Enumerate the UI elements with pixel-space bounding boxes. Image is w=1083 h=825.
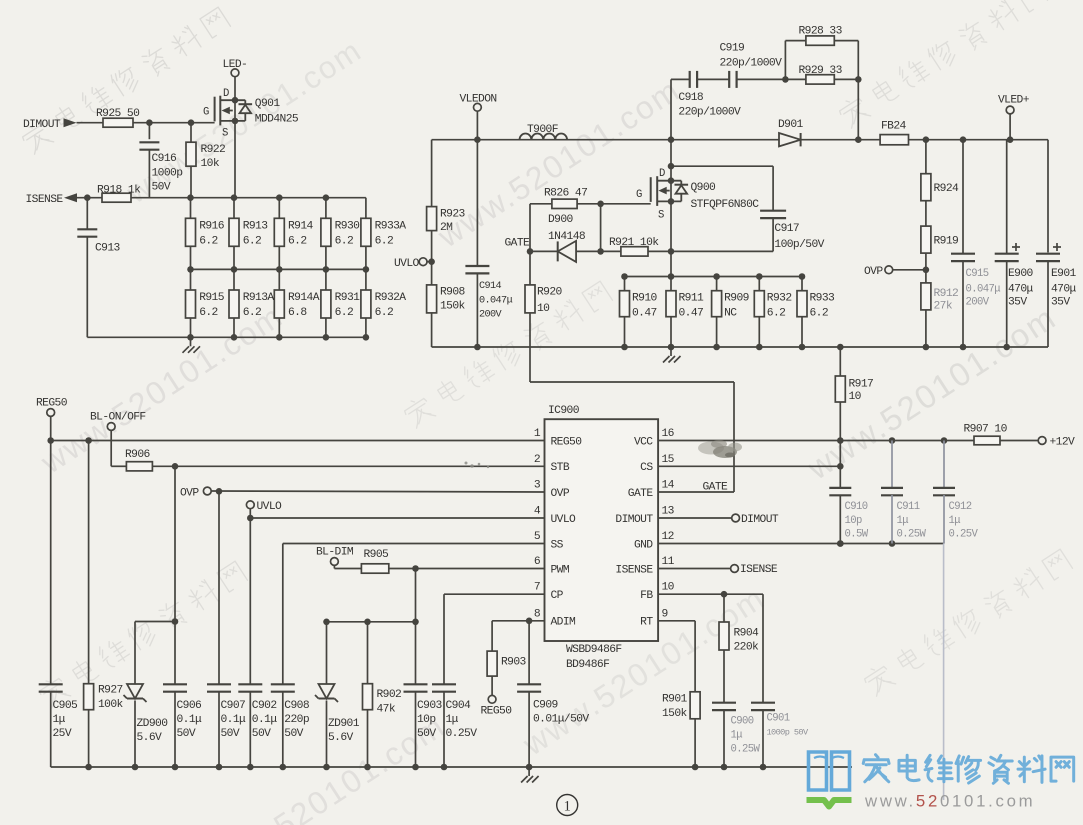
- svg-text:G: G: [636, 189, 642, 201]
- svg-text:0.5W: 0.5W: [845, 529, 869, 541]
- svg-text:FB: FB: [640, 590, 653, 602]
- svg-text:REG50: REG50: [481, 706, 513, 718]
- svg-text:5.6V: 5.6V: [328, 732, 354, 744]
- svg-text:Q900: Q900: [691, 182, 717, 194]
- svg-text:R909: R909: [724, 293, 749, 305]
- svg-text:50V: 50V: [417, 728, 436, 740]
- svg-text:1μ: 1μ: [897, 515, 909, 527]
- svg-text:C912: C912: [949, 501, 972, 513]
- svg-text:C907: C907: [221, 700, 246, 712]
- svg-text:0.47: 0.47: [632, 308, 657, 320]
- svg-text:C906: C906: [177, 700, 203, 712]
- svg-text:R914A: R914A: [288, 292, 320, 304]
- svg-text:C913: C913: [95, 243, 121, 255]
- svg-text:R915: R915: [199, 292, 225, 304]
- svg-text:1μ: 1μ: [731, 730, 743, 742]
- svg-text:R932A: R932A: [375, 292, 407, 304]
- svg-text:S: S: [222, 128, 228, 140]
- svg-text:10p: 10p: [417, 714, 436, 726]
- svg-text:R914: R914: [288, 221, 314, 233]
- svg-text:10: 10: [537, 303, 550, 315]
- svg-text:0.047μ: 0.047μ: [479, 296, 513, 307]
- svg-text:50V: 50V: [221, 728, 240, 740]
- svg-text:D: D: [659, 168, 665, 180]
- svg-text:0.047μ: 0.047μ: [966, 284, 1001, 296]
- svg-text:OVP: OVP: [864, 266, 883, 278]
- svg-text:CS: CS: [640, 462, 653, 474]
- svg-text:C919: C919: [720, 43, 745, 55]
- svg-text:11: 11: [662, 556, 675, 568]
- svg-text:R918 1k: R918 1k: [97, 185, 141, 197]
- svg-text:CP: CP: [551, 590, 564, 602]
- svg-text:0.25V: 0.25V: [446, 728, 478, 740]
- svg-text:6.2: 6.2: [375, 236, 394, 248]
- svg-text:R924: R924: [934, 183, 960, 195]
- svg-text:0.25V: 0.25V: [949, 529, 979, 541]
- svg-text:BL-ON/OFF: BL-ON/OFF: [90, 412, 146, 424]
- svg-text:5.6V: 5.6V: [137, 732, 163, 744]
- svg-text:100p/50V: 100p/50V: [774, 239, 824, 251]
- svg-text:1000p 50V: 1000p 50V: [767, 728, 809, 738]
- svg-text:2: 2: [534, 454, 540, 466]
- svg-text:5: 5: [534, 531, 541, 543]
- svg-text:R925 50: R925 50: [96, 108, 140, 120]
- svg-text:GATE: GATE: [628, 488, 654, 500]
- svg-text:D901: D901: [778, 119, 804, 131]
- svg-text:16: 16: [662, 428, 675, 440]
- svg-text:6.2: 6.2: [810, 308, 829, 320]
- svg-text:3: 3: [534, 480, 541, 492]
- svg-text:C909: C909: [533, 700, 558, 712]
- svg-text:UVLO: UVLO: [551, 514, 577, 526]
- svg-text:2M: 2M: [440, 222, 453, 234]
- svg-text:R919: R919: [934, 236, 959, 248]
- svg-text:50V: 50V: [252, 728, 271, 740]
- svg-text:REG50: REG50: [551, 436, 583, 448]
- svg-text:6.2: 6.2: [767, 308, 786, 320]
- svg-text:470μ: 470μ: [1051, 284, 1077, 296]
- svg-text:IC900: IC900: [548, 405, 580, 417]
- svg-text:DIMOUT: DIMOUT: [741, 514, 779, 526]
- svg-text:200V: 200V: [966, 297, 990, 309]
- svg-text:6.2: 6.2: [335, 307, 354, 319]
- svg-text:WSBD9486F: WSBD9486F: [566, 644, 622, 656]
- svg-text:6.2: 6.2: [335, 236, 354, 248]
- svg-text:220k: 220k: [734, 642, 760, 654]
- svg-text:LED-: LED-: [223, 59, 248, 71]
- svg-text:35V: 35V: [1008, 297, 1027, 309]
- svg-text:Q901: Q901: [255, 98, 281, 110]
- svg-text:ISENSE: ISENSE: [26, 194, 64, 206]
- svg-text:R931: R931: [335, 292, 361, 304]
- svg-text:C914: C914: [479, 281, 502, 292]
- svg-text:R933A: R933A: [375, 221, 407, 233]
- svg-text:6.8: 6.8: [288, 307, 307, 319]
- svg-text:G: G: [203, 107, 209, 119]
- svg-text:ISENSE: ISENSE: [615, 564, 653, 576]
- svg-text:VCC: VCC: [634, 436, 653, 448]
- svg-text:R932: R932: [767, 293, 792, 305]
- svg-text:VLEDON: VLEDON: [460, 94, 497, 106]
- svg-text:MDD4N25: MDD4N25: [255, 114, 299, 126]
- svg-text:1: 1: [564, 798, 571, 814]
- svg-text:+12V: +12V: [1050, 437, 1076, 449]
- svg-text:STB: STB: [551, 462, 570, 474]
- svg-text:DIMOUT: DIMOUT: [615, 514, 653, 526]
- svg-text:E901: E901: [1051, 268, 1077, 280]
- svg-text:C910: C910: [845, 501, 868, 513]
- svg-text:1: 1: [534, 428, 541, 440]
- svg-text:9: 9: [662, 608, 668, 620]
- svg-text:E900: E900: [1008, 268, 1034, 280]
- svg-text:C917: C917: [774, 223, 799, 235]
- svg-text:ZD900: ZD900: [137, 718, 169, 730]
- svg-text:R908: R908: [440, 287, 466, 299]
- svg-text:C918: C918: [678, 92, 704, 104]
- svg-text:6.2: 6.2: [199, 236, 218, 248]
- svg-text:C901: C901: [767, 713, 790, 725]
- svg-text:12: 12: [662, 531, 674, 543]
- svg-text:50V: 50V: [284, 728, 303, 740]
- svg-text:R929 33: R929 33: [799, 65, 843, 77]
- svg-text:220p: 220p: [284, 714, 310, 726]
- svg-text:UVLO: UVLO: [257, 501, 283, 513]
- svg-text:1μ: 1μ: [53, 714, 66, 726]
- svg-text:0.25W: 0.25W: [897, 529, 927, 541]
- svg-text:RT: RT: [640, 617, 653, 629]
- svg-text:0.1μ: 0.1μ: [221, 714, 247, 726]
- svg-text:R927: R927: [98, 685, 123, 697]
- svg-text:6.2: 6.2: [243, 236, 262, 248]
- svg-text:C916: C916: [152, 153, 178, 165]
- svg-text:C904: C904: [446, 700, 472, 712]
- svg-text:C900: C900: [731, 716, 754, 728]
- svg-text:R913: R913: [243, 221, 269, 233]
- svg-text:0.01μ/50V: 0.01μ/50V: [533, 714, 589, 726]
- svg-text:R907 10: R907 10: [964, 424, 1008, 436]
- svg-text:1μ: 1μ: [446, 714, 459, 726]
- svg-text:27k: 27k: [934, 301, 953, 313]
- svg-text:GATE: GATE: [505, 238, 531, 250]
- svg-text:R902: R902: [377, 689, 402, 701]
- svg-text:REG50: REG50: [36, 398, 68, 410]
- svg-text:C911: C911: [897, 501, 920, 513]
- svg-text:13: 13: [662, 506, 675, 518]
- svg-text:R911: R911: [679, 293, 705, 305]
- svg-text:R826 47: R826 47: [544, 188, 587, 200]
- svg-text:10p: 10p: [845, 515, 863, 527]
- svg-text:S: S: [658, 210, 664, 222]
- svg-text:C902: C902: [252, 700, 277, 712]
- svg-text:R910: R910: [632, 293, 658, 305]
- svg-text:STFQPF6N80C: STFQPF6N80C: [691, 199, 760, 211]
- svg-text:R920: R920: [537, 287, 563, 299]
- svg-text:6.2: 6.2: [243, 307, 262, 319]
- svg-text:DIMOUT: DIMOUT: [23, 119, 61, 131]
- svg-text:0.25W: 0.25W: [731, 744, 761, 756]
- svg-text:R912: R912: [934, 288, 959, 300]
- svg-text:T900F: T900F: [527, 124, 558, 136]
- svg-text:PWM: PWM: [551, 564, 570, 576]
- svg-text:15: 15: [662, 454, 675, 466]
- svg-text:C905: C905: [53, 700, 79, 712]
- svg-text:BD9486F: BD9486F: [566, 659, 609, 671]
- svg-text:0.1μ: 0.1μ: [252, 714, 278, 726]
- svg-text:14: 14: [662, 480, 675, 492]
- svg-text:R923: R923: [440, 209, 466, 221]
- svg-text:R933: R933: [810, 293, 836, 305]
- svg-text:6.2: 6.2: [375, 307, 394, 319]
- svg-text:C908: C908: [284, 700, 310, 712]
- svg-text:BL-DIM: BL-DIM: [316, 547, 354, 559]
- svg-text:50V: 50V: [177, 728, 196, 740]
- svg-text:GATE: GATE: [703, 482, 729, 494]
- svg-text:100k: 100k: [98, 699, 124, 711]
- svg-text:R930: R930: [335, 221, 361, 233]
- svg-text:0.47: 0.47: [679, 308, 704, 320]
- svg-text:R906: R906: [125, 449, 151, 461]
- svg-text:OVP: OVP: [551, 488, 570, 500]
- svg-text:ZD901: ZD901: [328, 718, 360, 730]
- svg-text:www.520101.com: www.520101.com: [864, 792, 1035, 811]
- svg-text:10: 10: [849, 391, 862, 403]
- svg-text:GND: GND: [634, 539, 653, 551]
- svg-text:FB24: FB24: [881, 121, 907, 133]
- svg-text:UVLO: UVLO: [394, 258, 420, 270]
- svg-text:10: 10: [662, 582, 675, 594]
- svg-text:6.2: 6.2: [288, 236, 307, 248]
- svg-text:47k: 47k: [377, 704, 396, 716]
- svg-text:R922: R922: [201, 144, 226, 156]
- svg-text:0.1μ: 0.1μ: [177, 714, 203, 726]
- svg-text:50V: 50V: [152, 182, 171, 194]
- svg-text:D900: D900: [548, 214, 574, 226]
- svg-text:R916: R916: [199, 221, 225, 233]
- svg-text:25V: 25V: [53, 728, 72, 740]
- svg-text:R903: R903: [501, 657, 527, 669]
- svg-text:220p/1000V: 220p/1000V: [678, 107, 741, 119]
- svg-text:ADIM: ADIM: [551, 617, 577, 629]
- svg-text:150k: 150k: [440, 301, 466, 313]
- svg-text:220p/1000V: 220p/1000V: [720, 58, 783, 70]
- svg-text:C915: C915: [966, 268, 989, 280]
- svg-text:1N4148: 1N4148: [548, 231, 586, 243]
- svg-text:6.2: 6.2: [199, 307, 218, 319]
- svg-text:1000p: 1000p: [152, 168, 184, 180]
- svg-text:10k: 10k: [201, 158, 220, 170]
- svg-text:R913A: R913A: [243, 292, 275, 304]
- svg-text:R904: R904: [734, 628, 760, 640]
- svg-text:4: 4: [534, 506, 541, 518]
- svg-text:7: 7: [534, 582, 540, 594]
- svg-text:35V: 35V: [1051, 297, 1070, 309]
- svg-text:NC: NC: [724, 308, 737, 320]
- svg-text:R917: R917: [849, 379, 874, 391]
- svg-text:SS: SS: [551, 539, 564, 551]
- svg-text:200V: 200V: [479, 310, 503, 321]
- svg-text:6: 6: [534, 556, 541, 568]
- svg-text:8: 8: [534, 608, 541, 620]
- svg-text:D: D: [223, 88, 229, 100]
- svg-text:1μ: 1μ: [949, 515, 961, 527]
- svg-text:C903: C903: [417, 700, 443, 712]
- svg-text:ISENSE: ISENSE: [740, 564, 778, 576]
- svg-text:R928 33: R928 33: [799, 26, 843, 38]
- svg-text:R921 10k: R921 10k: [609, 237, 659, 249]
- svg-text:OVP: OVP: [180, 488, 199, 500]
- svg-text:R905: R905: [364, 549, 390, 561]
- svg-text:R901: R901: [662, 694, 688, 706]
- svg-text:470μ: 470μ: [1008, 284, 1034, 296]
- svg-text:VLED+: VLED+: [998, 95, 1030, 107]
- svg-text:150k: 150k: [662, 708, 688, 720]
